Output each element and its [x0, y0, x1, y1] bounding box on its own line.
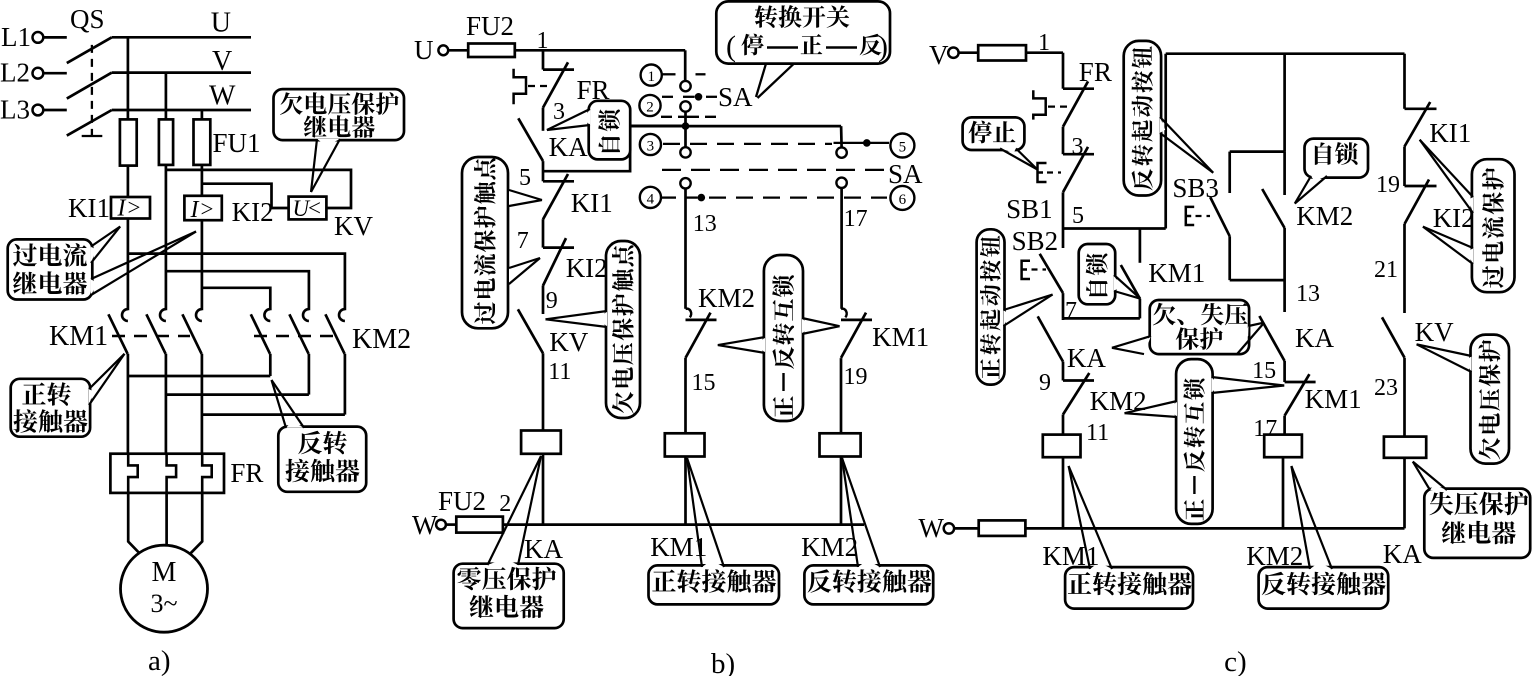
svg-text:1: 1 [1038, 30, 1050, 56]
start button SB2 [1012, 226, 1063, 293]
svg-text:KI2: KI2 [232, 197, 274, 227]
callout undervoltage relay [274, 89, 405, 192]
contactor KM1 pole 3 [182, 309, 202, 454]
coil KM2 c [1264, 435, 1302, 529]
svg-text:KM2: KM2 [1296, 201, 1353, 231]
SA position 2 [639, 95, 660, 116]
svg-text:U: U [414, 35, 434, 65]
wire top distribution [1166, 52, 1405, 55]
svg-text:KI2: KI2 [566, 253, 608, 283]
contactor KM2 pole 1 [251, 309, 270, 376]
svg-text:KI1: KI1 [1429, 118, 1471, 148]
svg-text:KM2: KM2 [1090, 386, 1147, 416]
FR heater symbol c [1033, 90, 1072, 119]
contact KV c [1382, 317, 1454, 358]
thermal contact FR b [543, 62, 610, 107]
svg-text:KM1: KM1 [872, 322, 929, 352]
contact KI2 b [543, 238, 608, 286]
svg-text:FU2: FU2 [466, 11, 514, 41]
callout zero-volt relay [454, 456, 564, 628]
svg-text:5: 5 [1072, 203, 1084, 229]
contactor KM2 pole 3 [325, 309, 345, 415]
callout overcurrent protection c [1420, 140, 1515, 293]
svg-text:b): b) [711, 648, 735, 676]
SA position 6 [890, 186, 914, 210]
callout self-lock SB2 [1079, 244, 1141, 304]
relay coil KA c [1384, 437, 1426, 529]
svg-text:9: 9 [546, 288, 558, 314]
node 19 c [1376, 147, 1405, 199]
contactor KM1 label [49, 321, 108, 352]
svg-text:13: 13 [693, 211, 717, 237]
terminal L1 [1, 22, 67, 52]
callout interlock c [1125, 359, 1285, 524]
node 3 b [543, 99, 565, 131]
coil KM2 b [820, 433, 861, 524]
svg-text:6: 6 [899, 192, 907, 208]
SA position 5 [890, 134, 914, 158]
label b) [711, 648, 735, 676]
SA position 4 [640, 187, 661, 208]
label c) [1224, 646, 1247, 676]
SA contact 3 [680, 147, 690, 157]
terminal U b [414, 35, 468, 65]
SA label main [718, 82, 753, 112]
callout interlock b [718, 255, 840, 421]
node 3 c [1063, 127, 1084, 160]
callout stop [963, 117, 1038, 169]
node 11 c [1063, 415, 1109, 447]
wire SA junction [630, 112, 841, 148]
callout reverse start button [1124, 41, 1214, 196]
svg-text:4: 4 [647, 191, 655, 207]
fuse FU4 [979, 520, 1026, 536]
svg-text:FR: FR [230, 458, 263, 488]
coil label KA c [1383, 539, 1422, 569]
wire SA to node17 [842, 188, 868, 309]
contact KI1 c [1405, 102, 1472, 148]
svg-text:L3: L3 [0, 95, 30, 125]
node 15 b [686, 358, 716, 433]
svg-text:21: 21 [1374, 257, 1398, 283]
wire control bus c [1025, 527, 1404, 530]
wire V phase vertical [165, 73, 168, 311]
node 5 c [1063, 192, 1084, 229]
contact KA fwd [1038, 316, 1107, 373]
undervoltage relay KV [289, 196, 374, 242]
wire W phase vertical [201, 110, 204, 310]
callout reverse contactor a [272, 380, 367, 492]
fuse FU3 [978, 45, 1026, 60]
svg-text:19: 19 [844, 364, 868, 390]
svg-text:KI1: KI1 [571, 188, 613, 218]
selfhold contact KM1 c [1121, 229, 1206, 319]
bus U [112, 8, 251, 39]
svg-text:SB2: SB2 [1012, 226, 1059, 256]
coil label KM2 c [1246, 541, 1303, 571]
svg-text:KA: KA [1067, 343, 1106, 373]
callout reverse contactor c [1259, 466, 1389, 609]
node 21 c [1374, 224, 1405, 313]
FR heater symbol b [514, 69, 552, 104]
node 9 c [1039, 362, 1063, 396]
svg-text:KM2: KM2 [352, 324, 411, 355]
SA row middle dashes [662, 159, 923, 189]
svg-text:c): c) [1224, 646, 1247, 676]
coil label KA b [524, 534, 563, 564]
callout forward contactor b [649, 458, 780, 604]
SA position 3 [640, 134, 661, 155]
svg-text:3: 3 [647, 138, 655, 154]
SA position 1 [641, 65, 717, 86]
svg-text:1: 1 [537, 28, 549, 54]
svg-text:15: 15 [1252, 358, 1276, 384]
svg-text:11: 11 [1086, 420, 1109, 446]
svg-text:7: 7 [517, 228, 529, 254]
node 7 c [1063, 293, 1077, 324]
node 9 b [543, 286, 558, 315]
terminal V c [929, 40, 978, 70]
switch QS linkage [82, 45, 103, 136]
svg-text:KI1: KI1 [68, 193, 110, 223]
fuse FU1 pole 1 [120, 119, 137, 165]
svg-text:KM2: KM2 [1246, 541, 1303, 571]
wire node1 c [1026, 30, 1063, 89]
switch QS blade 2 [67, 73, 112, 99]
svg-text:3~: 3~ [150, 589, 177, 618]
node 19 b [841, 358, 868, 433]
svg-text:W: W [918, 513, 944, 543]
node 23 c [1374, 358, 1405, 437]
callout selector switch [716, 1, 890, 63]
motor M [121, 545, 208, 632]
callout self-lock KM2 [1295, 139, 1368, 204]
contactor KM1 pole 2 [146, 309, 166, 454]
svg-text:KM1: KM1 [1305, 384, 1362, 414]
thermal relay FR label [230, 458, 263, 488]
switch QS label [70, 4, 105, 34]
fuse FU2 bottom [438, 486, 511, 533]
svg-text:V: V [929, 40, 949, 70]
svg-text:V: V [212, 46, 232, 77]
switch QS blade 1 [67, 37, 112, 63]
fuse FU2 top [466, 11, 515, 57]
thermal relay FR heater 2 [167, 454, 177, 493]
wire SB3 bottom [1230, 236, 1285, 280]
node 17 c [1253, 416, 1284, 442]
stop button SB1 [1006, 147, 1094, 224]
svg-text:FU1: FU1 [213, 128, 261, 158]
wire KM2 pole1 to phase1 [128, 375, 270, 378]
contact KV b [518, 309, 589, 357]
fuse FU1 label [213, 128, 261, 158]
svg-text:2: 2 [646, 99, 654, 115]
relay coil KA [521, 431, 561, 525]
wire KM2 pole2 to phase2 [166, 393, 309, 396]
svg-text:M: M [152, 557, 177, 588]
svg-text:KM1: KM1 [1042, 541, 1099, 571]
svg-text:9: 9 [1039, 370, 1051, 396]
svg-text:7: 7 [1065, 298, 1077, 324]
wire SB3 branch top [1230, 54, 1285, 152]
svg-text:19: 19 [1376, 172, 1400, 198]
relay contact KA selfhold [518, 118, 588, 162]
callout reverse contactor b [804, 458, 933, 604]
svg-text:KV: KV [334, 211, 373, 241]
svg-text:I: I [190, 197, 200, 223]
interlock contact KM2 b [686, 283, 756, 358]
terminal W b [412, 510, 456, 540]
selfhold contact KM2 c [1262, 152, 1353, 231]
callout overcurrent contacts [462, 157, 542, 328]
node 11 b [543, 353, 571, 430]
svg-text:KM2: KM2 [801, 532, 858, 562]
svg-text:5: 5 [899, 139, 907, 155]
svg-text:17: 17 [844, 206, 868, 232]
svg-text:L1: L1 [1, 22, 31, 52]
callout undervoltage protection c [1417, 335, 1509, 464]
start button SB3 [1172, 152, 1229, 237]
callout forward contactor c [1065, 466, 1193, 609]
SA contact 1 [680, 81, 690, 91]
contact KI1 b [543, 174, 613, 219]
interlock contact KM1 b [841, 309, 929, 358]
callout voltage-loss relay [1413, 462, 1530, 558]
svg-text:<: < [308, 196, 321, 221]
svg-text:SB1: SB1 [1006, 194, 1053, 224]
fuse FU1 pole 3 [194, 119, 211, 164]
SA row 3 dashes [663, 143, 832, 145]
motor lead 2 [165, 493, 168, 546]
wire node1 top [515, 28, 685, 54]
svg-text:KM2: KM2 [698, 283, 755, 313]
svg-text:KM1: KM1 [1148, 258, 1205, 288]
interlock contact KM1 c2 [1285, 374, 1362, 416]
switch QS blade 3 [67, 110, 112, 136]
wire SA to node13 [686, 189, 717, 309]
svg-text:): ) [878, 30, 888, 63]
SA contact 5 [836, 126, 846, 158]
SA close mark 1-2 [662, 93, 717, 101]
coil label KM1 c [1042, 541, 1099, 571]
bus W [112, 81, 251, 112]
SA contact 4 [680, 178, 690, 188]
svg-text:5: 5 [519, 165, 531, 191]
coil label KM2 b [801, 532, 858, 562]
motor lead 1 [128, 493, 146, 561]
svg-text:KA: KA [549, 132, 588, 162]
svg-text:KM1: KM1 [49, 321, 108, 352]
wire control bus b [503, 523, 864, 526]
coil KM1 c [1043, 435, 1081, 529]
contactor KM2 pole 2 [289, 309, 309, 395]
svg-text:15: 15 [692, 370, 716, 396]
SA close mark 5 [834, 139, 890, 147]
thermal contact FR c [1063, 57, 1112, 127]
label a) [148, 645, 171, 676]
thermal relay FR heater 1 [128, 454, 138, 493]
terminal L3 [0, 95, 67, 125]
svg-text:23: 23 [1374, 375, 1398, 401]
overcurrent relay KI1 [68, 193, 150, 223]
callout forward start button [977, 229, 1053, 384]
svg-text:>: > [201, 197, 214, 222]
svg-text:KA: KA [524, 534, 563, 564]
SA close mark 3-4 [661, 194, 887, 202]
svg-text:11: 11 [548, 359, 571, 385]
node 13 c [1285, 228, 1320, 312]
thermal relay FR box [110, 454, 224, 493]
wire feed riser [1164, 54, 1167, 229]
wire KI drop [1403, 54, 1406, 109]
svg-text:SA: SA [718, 82, 753, 112]
svg-text:(: ( [726, 30, 736, 63]
wire U phase vertical [127, 37, 130, 310]
svg-text:FU2: FU2 [438, 486, 486, 516]
callout voltage protection [1112, 300, 1264, 354]
terminal W c [918, 513, 978, 543]
contactor KM1 linkage [112, 335, 190, 337]
overcurrent relay KI2 [184, 196, 273, 227]
switch SA drop [684, 50, 687, 81]
svg-text:QS: QS [70, 4, 105, 34]
svg-text:2: 2 [499, 491, 511, 517]
svg-text:W: W [209, 81, 236, 112]
SA contact 2 [680, 101, 690, 111]
contactor KM2 label [352, 324, 411, 355]
SA contact 6 [836, 178, 846, 188]
wire W to KV [202, 184, 289, 208]
interlock contact KM2 c [1063, 373, 1147, 416]
svg-text:KM1: KM1 [650, 532, 707, 562]
terminal L2 [0, 58, 67, 88]
node 5 b [519, 161, 543, 191]
wire V to KM2 pole2 [166, 271, 309, 310]
callout overcurrent relay [8, 227, 196, 300]
callout undervoltage contact [546, 241, 641, 418]
contact KI2 c [1405, 180, 1475, 234]
svg-text:KV: KV [1415, 317, 1454, 347]
svg-text:FR: FR [1079, 57, 1112, 87]
svg-text:>: > [128, 195, 141, 220]
contactor KM2 linkage [254, 335, 334, 337]
svg-text:SA: SA [888, 159, 923, 189]
motor lead 3 [184, 493, 203, 561]
svg-text:KV: KV [549, 327, 588, 357]
wire selfhold branch [543, 126, 686, 171]
SA row dashes [661, 116, 718, 118]
wire node5 to feed [1063, 227, 1166, 230]
svg-text:a): a) [148, 645, 171, 676]
svg-text:W: W [412, 510, 438, 540]
svg-text:I: I [117, 196, 127, 222]
wire V to KV [166, 170, 351, 208]
bus V [112, 46, 251, 77]
callout forward contactor a [11, 354, 125, 437]
wire selfhold join c [1063, 317, 1140, 320]
svg-text:KA: KA [1295, 323, 1334, 353]
wire U to KM2 pole3 [128, 254, 345, 311]
wire W to KM2 pole1 [202, 288, 270, 310]
svg-text:KA: KA [1383, 539, 1422, 569]
svg-text:U: U [211, 8, 231, 39]
svg-text:L2: L2 [0, 58, 30, 88]
node 7 b [517, 219, 543, 254]
svg-text:1: 1 [647, 69, 655, 85]
coil label KM1 b [650, 532, 707, 562]
SA leader [756, 64, 794, 98]
wire FR drop b [542, 50, 545, 69]
contactor KM1 pole 1 [108, 309, 128, 454]
callout self-lock b [547, 101, 630, 160]
thermal relay FR heater 3 [202, 454, 212, 493]
contact KA rev [1259, 316, 1334, 361]
wire KM2 pole3 to phase3 [202, 413, 345, 416]
coil KM1 b [665, 433, 705, 524]
fuse FU1 pole 2 [159, 119, 173, 164]
node 15 c [1252, 358, 1285, 384]
svg-text:13: 13 [1296, 281, 1320, 307]
